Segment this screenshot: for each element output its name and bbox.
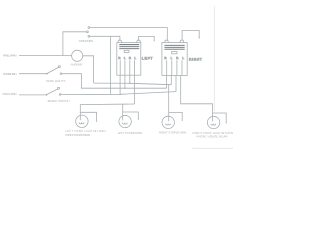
- wire lamp3 ground branch: [169, 112, 183, 119]
- wire turn bus L3: [94, 83, 172, 85]
- svg-text:LEFT: LEFT: [142, 56, 153, 60]
- wire right connector boot2 jumper with arrow: [182, 31, 199, 41]
- wire left connector pin4 down: [134, 75, 136, 104]
- wire park bus L4: [62, 74, 167, 89]
- wire left connector pin3: [129, 75, 131, 83]
- lamp L2 left stop/turn: [119, 115, 131, 127]
- lamp L3 right stop/turn: [162, 116, 174, 128]
- svg-text:POWER HARN: POWER HARN: [3, 72, 17, 76]
- wire feed line 3 (brake): [19, 94, 46, 96]
- connector J1 LEFT: [117, 40, 141, 75]
- wire right connector pin2 drop: [170, 75, 172, 84]
- svg-text:LEFT STOP&TURN: LEFT STOP&TURN: [118, 131, 143, 135]
- node junction L5/pin1L: [119, 94, 120, 95]
- wire lamp2 feed branch: [122, 104, 124, 115]
- svg-text:RIGHT: RIGHT: [189, 57, 202, 61]
- wire right connector pin3 drop: [175, 75, 177, 91]
- wire branch riser to brake line: [110, 36, 112, 94]
- wire lamp4 ground branch: [213, 113, 227, 122]
- wire top run to right connector boot: [90, 28, 168, 41]
- svg-text:R L R L: R L R L: [118, 56, 136, 60]
- wire lamp3 feed drop: [168, 85, 170, 117]
- wire riser from feed junction up to turn connector: [63, 32, 86, 56]
- svg-text:TURN CONN.: TURN CONN.: [79, 39, 94, 43]
- svg-text:FRONT HOUSE REAR: FRONT HOUSE REAR: [65, 133, 91, 137]
- wire brake bus L5: [61, 92, 176, 95]
- wire lamp feed bus to lamp1: [80, 104, 134, 115]
- wire flasher output down to turn bus: [83, 56, 94, 83]
- svg-text:R L R L: R L R L: [164, 56, 184, 60]
- svg-text:FLASHER: FLASHER: [71, 62, 84, 66]
- page edge bottom right: [192, 147, 233, 149]
- wire feed line 1 (panel harness to flasher): [19, 55, 72, 57]
- wire lamp2 ground branch: [123, 112, 139, 119]
- lamp L1 left park/turn front: [76, 115, 88, 127]
- svg-text:PARK LIGHTS: PARK LIGHTS: [46, 79, 66, 83]
- wire lamp1 ground branch: [80, 112, 96, 120]
- svg-text:FEED HARN: FEED HARN: [3, 92, 17, 96]
- svg-text:BRAKE SWITCH: BRAKE SWITCH: [48, 99, 70, 103]
- wire left connector pin1: [119, 75, 121, 94]
- node turn conn upper right terminal: [88, 27, 90, 29]
- node turn conn lower right terminal: [88, 35, 90, 37]
- node junction L3/pin3L: [129, 83, 130, 84]
- svg-text:FRONT HOUSE REAR: FRONT HOUSE REAR: [197, 135, 229, 139]
- node junction L4/pin2L: [124, 88, 125, 89]
- flasher F1: [72, 50, 83, 61]
- wire left connector boot2 jumper with arrow: [138, 36, 154, 40]
- svg-text:PANEL HARN: PANEL HARN: [3, 54, 17, 58]
- fold line (page crease): [213, 6, 215, 111]
- connector J2 RIGHT: [162, 40, 187, 75]
- wire lower run to left connector boot: [90, 36, 120, 40]
- wire feed line 2 (park): [19, 73, 46, 75]
- switch S2 brake: [46, 87, 61, 95]
- lamp L4 right park/turn front: [207, 116, 219, 128]
- wire right connector pin4 to lamp4: [181, 75, 213, 116]
- node turn conn left terminal: [87, 31, 89, 33]
- svg-text:RIGHT STOP&TURN: RIGHT STOP&TURN: [159, 130, 186, 134]
- wire left connector pin2: [124, 75, 126, 88]
- wire right connector pin1 drop: [166, 75, 168, 88]
- switch S1 park lights: [46, 66, 62, 75]
